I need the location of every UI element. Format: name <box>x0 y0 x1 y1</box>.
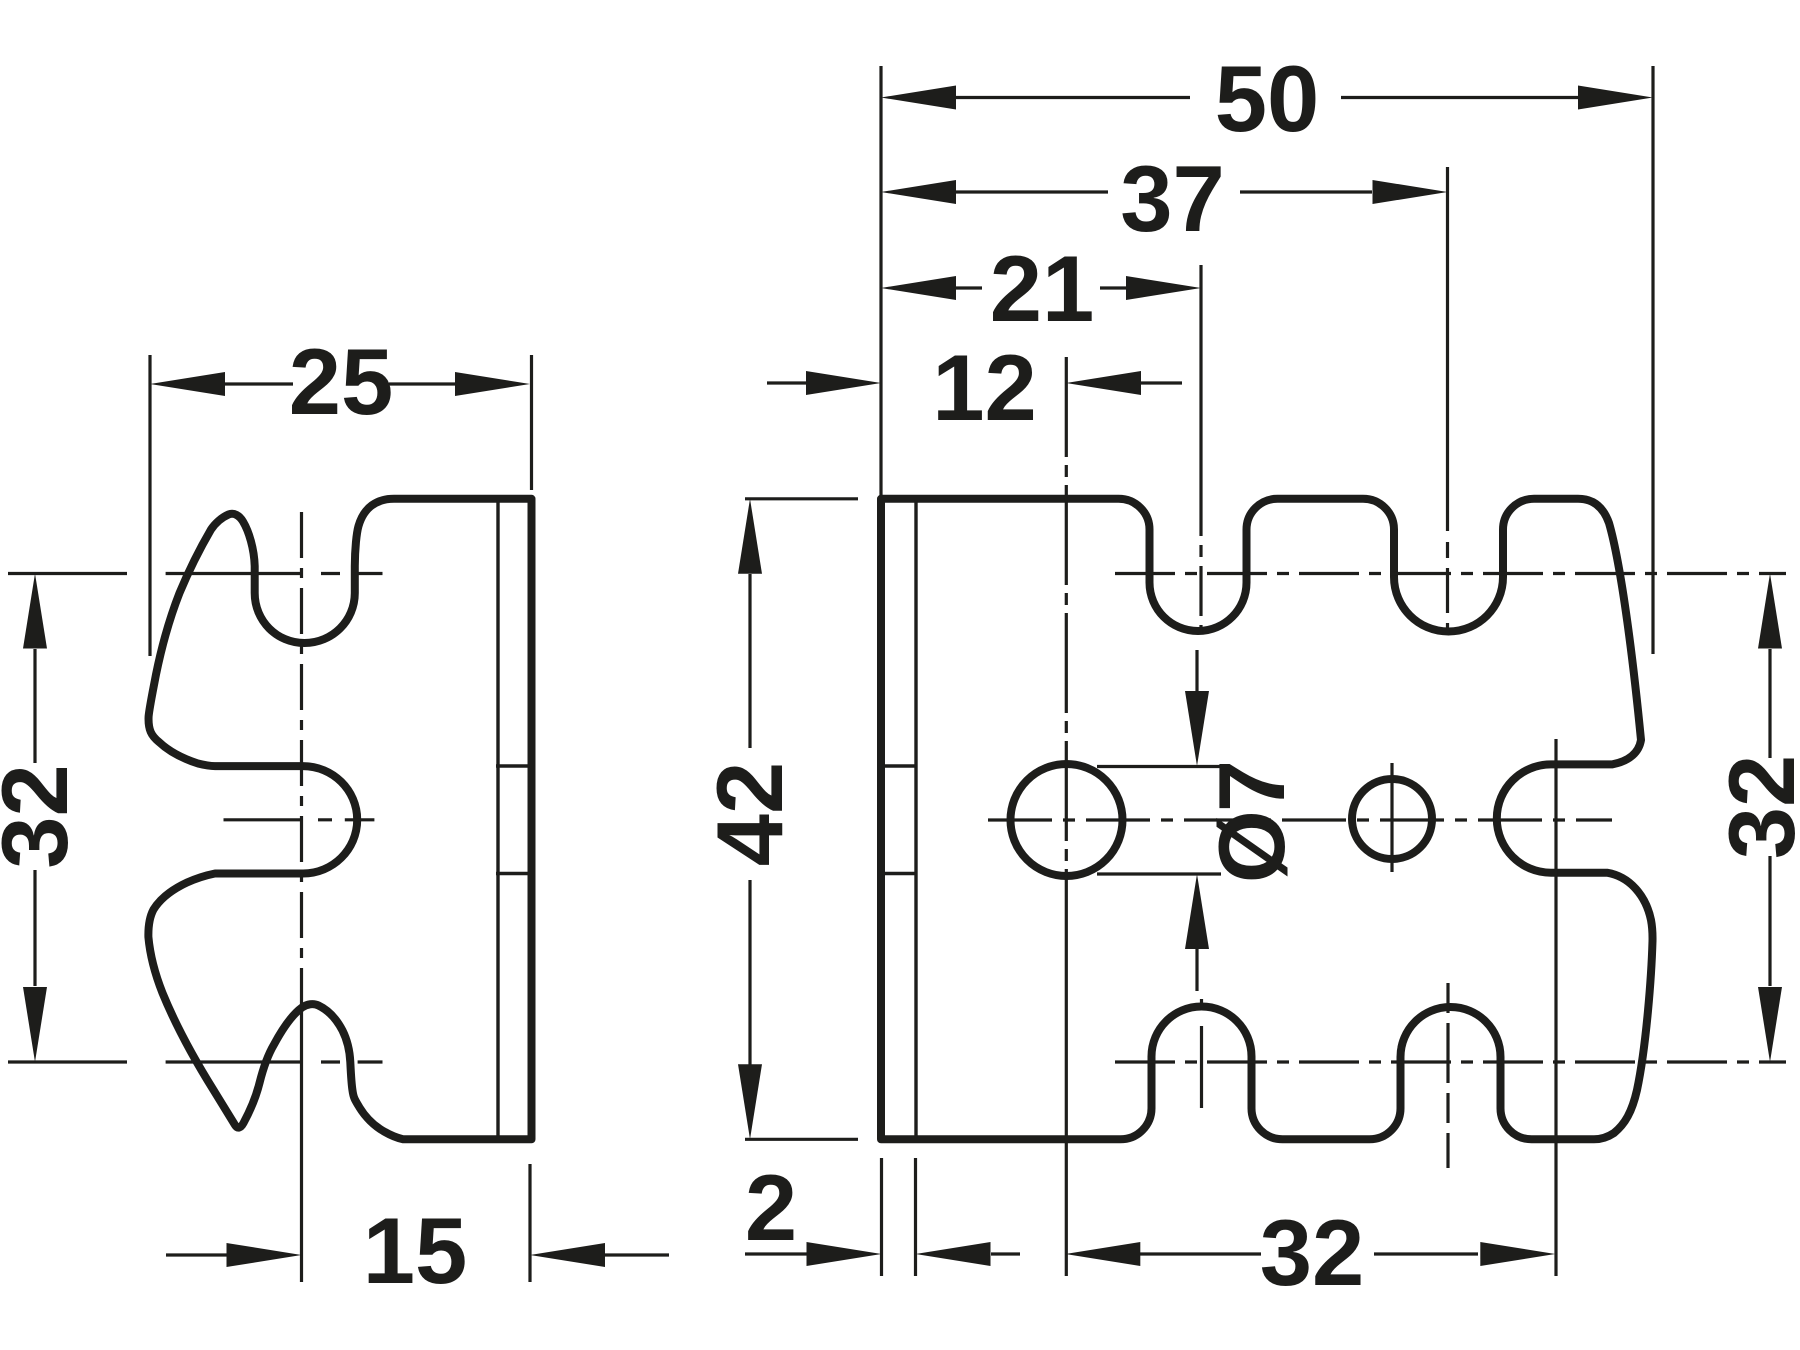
right view outline <box>881 499 1653 1140</box>
extension line left edge (50/37/21/12) <box>879 66 882 497</box>
dimension 37 <box>881 180 1448 204</box>
centerline left view vertical <box>300 512 303 1012</box>
svg-text:Ø7: Ø7 <box>1199 762 1304 883</box>
left view flange tick top <box>496 764 530 767</box>
right view flange tick bottom <box>882 872 916 875</box>
centerline right view scallop top <box>1115 572 1786 575</box>
svg-text:50: 50 <box>1215 46 1320 151</box>
centerline small hole vertical <box>1390 763 1393 872</box>
extension line 37 / centerline scallop col2 <box>1446 167 1449 531</box>
svg-text:32: 32 <box>1709 755 1800 860</box>
right view flange tick top <box>882 764 916 767</box>
centerline right view scallop bottom <box>1115 1060 1786 1063</box>
extension lines 42 <box>745 499 858 1140</box>
dimension 42 <box>738 499 762 1140</box>
left view outline <box>148 499 531 1140</box>
extension line 25 left <box>148 355 151 656</box>
extension line 21 / centerline scallop col1 <box>1199 265 1202 536</box>
extension line 15 right <box>528 1164 531 1282</box>
svg-text:12: 12 <box>932 335 1037 440</box>
centerline scallop col2 bottom <box>1446 983 1449 1168</box>
svg-text:21: 21 <box>990 236 1095 341</box>
centerline left view scallop top <box>8 572 383 575</box>
right view flange inner line <box>914 500 917 1138</box>
small hole <box>1352 779 1432 859</box>
dimension 32 left <box>23 574 47 1063</box>
extension line 25 right <box>530 355 533 490</box>
left view flange tick bottom <box>496 872 530 875</box>
centerline holes horizontal <box>988 818 1612 821</box>
svg-text:37: 37 <box>1120 146 1225 251</box>
dimension 15 <box>166 1243 669 1267</box>
centerline left view scallop bottom <box>8 1060 383 1063</box>
svg-text:32: 32 <box>0 764 87 869</box>
dimension 32 bottom <box>1065 1242 1555 1266</box>
centerline scallop col1 bottom <box>1200 999 1203 1108</box>
svg-text:25: 25 <box>289 329 394 434</box>
svg-text:2: 2 <box>745 1155 797 1260</box>
big hole (7 dia) <box>1011 764 1123 876</box>
svg-text:15: 15 <box>363 1198 468 1303</box>
centerline big hole vertical <box>1065 357 1068 950</box>
dimension 25 <box>150 372 530 396</box>
dimension 12 <box>767 371 1182 395</box>
extension line 50 right <box>1651 66 1654 654</box>
centerline left view middle <box>224 818 375 821</box>
dimension 2 <box>745 1242 1020 1266</box>
dimension 32 right <box>1758 574 1782 1063</box>
dimension dia7 leaders <box>1097 650 1221 991</box>
dimension 50 <box>881 86 1653 110</box>
dimension 21 <box>881 276 1201 300</box>
extension line 32 bottom right / notch centerline <box>1554 739 1557 1276</box>
svg-text:32: 32 <box>1260 1200 1365 1305</box>
svg-text:42: 42 <box>697 762 802 867</box>
extension lines 2 <box>882 1158 916 1276</box>
left view flange inner line <box>496 500 499 1138</box>
